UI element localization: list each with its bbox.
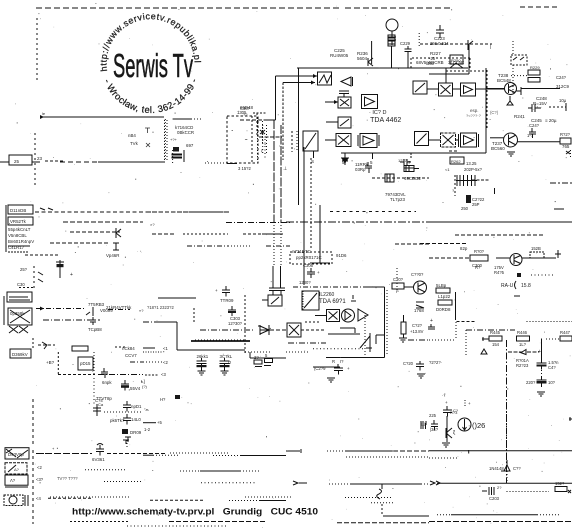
- svg-text:BC560: BC560: [491, 146, 505, 151]
- svg-text:C24?: C24?: [556, 75, 567, 80]
- svg-text:225: 225: [429, 413, 437, 418]
- svg-text:P: P: [396, 289, 399, 294]
- svg-text:D369kV: D369kV: [12, 352, 28, 357]
- svg-text:D0RD8: D0RD8: [436, 307, 451, 312]
- svg-text:+B?: +B?: [46, 360, 55, 365]
- svg-text:55p4kCnLT: 55p4kCnLT: [8, 227, 31, 232]
- svg-text:RA-U: RA-U: [501, 283, 514, 289]
- svg-text:65D48: 65D48: [240, 105, 253, 110]
- svg-text:R250: R250: [451, 58, 461, 63]
- svg-text:DR09: DR09: [130, 430, 142, 435]
- svg-text:TTR09: TTR09: [220, 298, 234, 303]
- svg-text:5LBp: 5LBp: [436, 283, 447, 288]
- svg-text:1-2: 1-2: [144, 427, 151, 432]
- svg-text:82p: 82p: [460, 246, 468, 251]
- svg-text:25P: 25P: [472, 202, 480, 207]
- svg-text:+5: +5: [157, 420, 162, 425]
- svg-text:D93V9p: D93V9p: [8, 452, 24, 457]
- svg-text:BC548: BC548: [497, 78, 511, 83]
- svg-text:<1: <1: [163, 346, 168, 351]
- svg-text:+: +: [445, 400, 448, 405]
- svg-text:C?20: C?20: [403, 361, 414, 366]
- svg-text:|34?: |34?: [430, 427, 439, 432]
- svg-text:R447: R447: [560, 330, 571, 335]
- svg-text:+: +: [215, 288, 218, 293]
- svg-text:15.8: 15.8: [521, 283, 531, 289]
- svg-text:?<???·?: ?<???·?: [466, 113, 482, 118]
- svg-text:10µ: 10µ: [559, 98, 567, 103]
- svg-text:+: +: [430, 318, 433, 324]
- svg-text:TVk: TVk: [130, 141, 139, 146]
- svg-text:152?: 152?: [555, 481, 565, 486]
- svg-text:202P-5x?: 202P-5x?: [464, 167, 483, 172]
- svg-text:14L0: 14L0: [131, 417, 141, 422]
- svg-text:R2?23: R2?23: [516, 363, 529, 368]
- svg-text:(?): (?): [142, 384, 148, 389]
- svg-text:312C9: 312C9: [556, 84, 569, 89]
- svg-text:nB4: nB4: [128, 133, 136, 138]
- svg-text:1230?: 1230?: [299, 280, 311, 285]
- svg-text:697: 697: [186, 143, 194, 148]
- svg-text:⊥: ⊥: [283, 166, 287, 172]
- svg-text:250: 250: [461, 206, 469, 211]
- svg-text:0BkCCR: 0BkCCR: [177, 130, 194, 135]
- svg-text:<2: <2: [37, 465, 42, 470]
- svg-text:Bn601R4npV: Bn601R4npV: [8, 239, 34, 244]
- svg-text:Ʌ?: Ʌ?: [10, 478, 16, 483]
- svg-text:25: 25: [14, 159, 20, 164]
- svg-text:91D6: 91D6: [336, 253, 347, 258]
- svg-text:23: 23: [37, 156, 43, 161]
- svg-text:|_|: |_|: [421, 421, 425, 426]
- svg-text:C4?: C4?: [548, 365, 556, 370]
- svg-text:13.25: 13.25: [466, 161, 477, 166]
- svg-text:L1p22: L1p22: [438, 294, 451, 299]
- svg-text:+: +: [70, 272, 73, 278]
- svg-text:<3: <3: [161, 372, 166, 377]
- svg-text:R4?5: R4?5: [494, 270, 505, 275]
- svg-text:pD15: pD15: [80, 361, 91, 366]
- svg-text:|: |: [490, 44, 491, 50]
- svg-text:CCV7: CCV7: [125, 353, 137, 358]
- svg-text:C??0?: C??0?: [411, 272, 424, 277]
- svg-text:55V4: 55V4: [130, 386, 141, 391]
- svg-text:26kk1: 26kk1: [197, 354, 209, 359]
- svg-text:ξ: ξ: [261, 148, 263, 153]
- svg-text:152B: 152B: [531, 246, 541, 251]
- svg-text:<1: <1: [445, 167, 450, 172]
- svg-text:R: R: [332, 359, 335, 364]
- svg-text:220?: 220?: [526, 380, 536, 385]
- svg-text:C229: C229: [400, 41, 411, 46]
- svg-text:C203: C203: [489, 496, 500, 501]
- svg-text:TL7p23: TL7p23: [390, 197, 405, 202]
- svg-text:0p358k: 0p358k: [10, 311, 25, 316]
- svg-text:1768: 1768: [414, 308, 424, 313]
- svg-text:2?: 2?: [497, 485, 502, 490]
- svg-text:R445: R445: [490, 330, 501, 335]
- svg-text:TDA 69?1: TDA 69?1: [319, 299, 346, 305]
- svg-text:(C?): (C?): [490, 110, 499, 115]
- svg-text:Vp46R: Vp46R: [106, 253, 119, 258]
- svg-text:1N4148: 1N4148: [489, 466, 504, 471]
- svg-text:<3?: <3?: [36, 477, 44, 482]
- svg-text:R?: R?: [475, 265, 481, 270]
- svg-text:6V361: 6V361: [92, 457, 105, 462]
- svg-text:H?: H?: [160, 397, 166, 402]
- svg-text:ξ: ξ: [261, 130, 263, 135]
- svg-text:C?0?: C?0?: [393, 277, 404, 282]
- svg-text:3C7kL: 3C7kL: [220, 354, 233, 359]
- svg-text:1L?: 1L?: [519, 342, 527, 347]
- svg-text:(C2?9: (C2?9: [314, 366, 326, 371]
- svg-text:TCpB8: TCpB8: [88, 327, 102, 332]
- svg-text:()26: ()26: [472, 421, 485, 430]
- svg-text:R?3: R?3: [450, 410, 458, 415]
- svg-text:360: 360: [427, 61, 435, 66]
- svg-text:+?+: +?+: [170, 137, 178, 142]
- svg-text:IL2260: IL2260: [319, 292, 335, 298]
- svg-text:<4: <4: [36, 496, 41, 501]
- svg-text:R262: R262: [451, 159, 461, 164]
- svg-text:?2?2?·: ?2?2?·: [429, 360, 442, 365]
- svg-text:·⸮: ·⸮: [442, 393, 446, 398]
- svg-text:· IC? D: · IC? D: [369, 110, 386, 116]
- svg-text:+: +: [317, 270, 320, 275]
- svg-text:http://www.schematy-tv.prv.pl: http://www.schematy-tv.prv.pl Grundig CU…: [72, 507, 318, 517]
- svg-text:· TDA 4462: · TDA 4462: [366, 117, 401, 124]
- svg-text:+: +: [347, 366, 350, 371]
- svg-text:≡ 20µ: ≡ 20µ: [545, 118, 557, 123]
- svg-text:nCk84: nCk84: [122, 346, 135, 351]
- svg-text:C?4: C?4: [95, 398, 103, 403]
- svg-text:+13.8V: +13.8V: [410, 329, 424, 334]
- svg-text:pp2kR0171C: pp2kR0171C: [296, 255, 322, 260]
- svg-text:°ʍ: °ʍ: [144, 407, 149, 412]
- svg-text:R241: R241: [514, 114, 525, 119]
- svg-text:+: +: [538, 349, 541, 355]
- svg-text:C30: C30: [17, 282, 25, 287]
- svg-text:03Rp: 03Rp: [355, 167, 366, 172]
- svg-text:10?: 10?: [548, 380, 556, 385]
- svg-text:Δ?: Δ?: [14, 467, 20, 472]
- svg-text:R229: R229: [530, 65, 540, 70]
- svg-text:C306: C306: [303, 263, 314, 268]
- svg-text:Iz: Iz: [228, 360, 231, 365]
- svg-text:3 15?2: 3 15?2: [238, 166, 251, 171]
- svg-text:R446: R446: [517, 330, 528, 335]
- svg-text:1-?: 1-?: [527, 133, 534, 138]
- svg-text:D11nDB: D11nDB: [10, 208, 26, 213]
- svg-text:R?0?: R?0?: [474, 249, 485, 254]
- svg-text:C24?: C24?: [529, 123, 540, 128]
- svg-text:C?2?: C?2?: [412, 323, 423, 328]
- svg-text:npD1: npD1: [131, 404, 142, 409]
- svg-text:7T5RB3: 7T5RB3: [88, 302, 105, 307]
- svg-text:<2: <2: [163, 360, 168, 365]
- svg-text:49CDD2: 49CDD2: [404, 176, 421, 181]
- svg-text:1237: 1237: [398, 158, 408, 163]
- svg-text:×?: ×?: [150, 222, 155, 227]
- svg-text:C??: C??: [513, 466, 521, 471]
- svg-text:765: 765: [562, 144, 570, 149]
- svg-text:Serwis Tv: Serwis Tv: [113, 47, 193, 84]
- svg-text:VR52Tk: VR52Tk: [10, 219, 27, 224]
- svg-text:⌄: ⌄: [244, 136, 247, 141]
- svg-text:5604: 5604: [357, 56, 368, 61]
- svg-text:TV?? T???: TV?? T???: [57, 476, 78, 481]
- svg-text:25?: 25?: [20, 267, 28, 272]
- svg-text:V5n8CBL: V5n8CBL: [8, 233, 27, 238]
- svg-text:RU4W05: RU4W05: [330, 53, 349, 58]
- svg-text:6npk: 6npk: [102, 380, 112, 385]
- svg-text:1305: 1305: [237, 110, 247, 115]
- svg-text:pk6Tk7: pk6Tk7: [110, 418, 125, 423]
- svg-text:R?2?: R?2?: [560, 132, 571, 137]
- svg-text:?18?1 2323?2: ?18?1 2323?2: [147, 305, 174, 310]
- svg-text:+: +: [468, 401, 471, 406]
- svg-text:12?30?: 12?30?: [228, 321, 243, 326]
- svg-text:154: 154: [492, 342, 500, 347]
- svg-text:«?: «?: [139, 308, 144, 313]
